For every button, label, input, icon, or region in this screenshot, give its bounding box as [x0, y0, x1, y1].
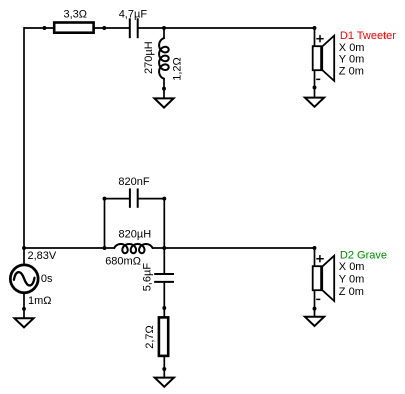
wire bottom rail right	[152, 247, 314, 249]
resistor R 3,3 ohm	[54, 8, 93, 32]
label D2 Grave	[339, 249, 387, 298]
node bottom rail at left rail	[22, 246, 26, 250]
node top rail at D1	[313, 26, 317, 30]
wire inductor branch bottom	[163, 79, 165, 99]
svg-text:D2 Grave: D2 Grave	[340, 249, 387, 261]
node 820nF top left	[103, 197, 107, 201]
svg-text:1mΩ: 1mΩ	[28, 295, 52, 307]
svg-text:Z 0m: Z 0m	[339, 66, 364, 78]
voltage source V1	[10, 250, 57, 307]
inductor 820uH with series 680mohm	[105, 229, 152, 268]
node D2 to ground	[313, 307, 317, 311]
wire 820nF top right	[139, 198, 165, 200]
svg-text:5,6µF: 5,6µF	[141, 263, 153, 292]
label D1 Tweeter	[339, 30, 396, 78]
node bottom rail at D2	[313, 246, 317, 250]
svg-text:X 0m: X 0m	[339, 42, 365, 54]
wire 5,6uF branch bottom	[163, 283, 165, 378]
svg-text:820nF: 820nF	[118, 176, 149, 188]
node D1 to ground	[313, 86, 317, 90]
wire 820nF top left	[105, 198, 130, 200]
wire D2 branch	[314, 248, 316, 317]
wire left rail	[23, 27, 25, 318]
svg-text:0s: 0s	[41, 273, 53, 285]
node 5,6uF to 2,7 ohm	[162, 306, 166, 310]
node bottom rail 820nF left	[103, 246, 107, 250]
node source to ground	[22, 307, 26, 311]
ground under 2,7 ohm	[155, 378, 174, 387]
svg-text:4,7µF: 4,7µF	[119, 8, 148, 20]
node top rail after resistor	[102, 26, 106, 30]
svg-text:270µH: 270µH	[143, 41, 155, 74]
ground under D2	[305, 317, 324, 326]
node inductor branch to ground	[162, 87, 166, 91]
wire bottom rail left	[24, 247, 114, 249]
resistor R 2,7 ohm	[144, 317, 168, 356]
wire D1 branch	[314, 28, 316, 98]
node top rail after source	[42, 26, 46, 30]
wire inductor branch top	[163, 28, 165, 39]
capacitor 820nF	[118, 176, 149, 208]
wire top rail left segment	[24, 27, 129, 29]
wire 5,6uF branch top	[163, 248, 165, 273]
node 2,7 ohm to ground	[162, 367, 166, 371]
svg-text:680mΩ: 680mΩ	[105, 256, 141, 268]
svg-text:1,2Ω: 1,2Ω	[171, 57, 183, 81]
speaker D2 Grave	[313, 255, 335, 301]
node bottom rail 820nF right	[162, 246, 166, 250]
svg-text:3,3Ω: 3,3Ω	[64, 8, 88, 20]
inductor 270uH with series 1,2 ohm	[143, 38, 184, 81]
capacitor 4,7uF	[119, 8, 148, 38]
ground under inductor branch	[154, 98, 173, 107]
wire 820nF left leg	[104, 199, 106, 248]
svg-text:2,83V: 2,83V	[28, 250, 57, 262]
svg-text:Y 0m: Y 0m	[339, 54, 364, 66]
capacitor 5,6uF	[141, 263, 174, 292]
node top rail inductor branch	[162, 26, 166, 30]
svg-text:X 0m: X 0m	[339, 261, 365, 273]
junction node dots	[22, 26, 316, 371]
speaker D1 Tweeter	[313, 35, 335, 81]
wire 820nF right leg	[163, 199, 165, 248]
svg-text:2,7Ω: 2,7Ω	[144, 325, 156, 349]
svg-text:820µH: 820µH	[119, 229, 152, 241]
svg-text:Y 0m: Y 0m	[339, 274, 364, 286]
node 820nF top right	[162, 197, 166, 201]
ground under source	[14, 318, 33, 327]
ground under D1	[305, 98, 324, 107]
wire top rail right segment	[139, 27, 315, 29]
svg-text:D1 Tweeter: D1 Tweeter	[340, 30, 396, 42]
svg-text:Z 0m: Z 0m	[339, 286, 364, 298]
